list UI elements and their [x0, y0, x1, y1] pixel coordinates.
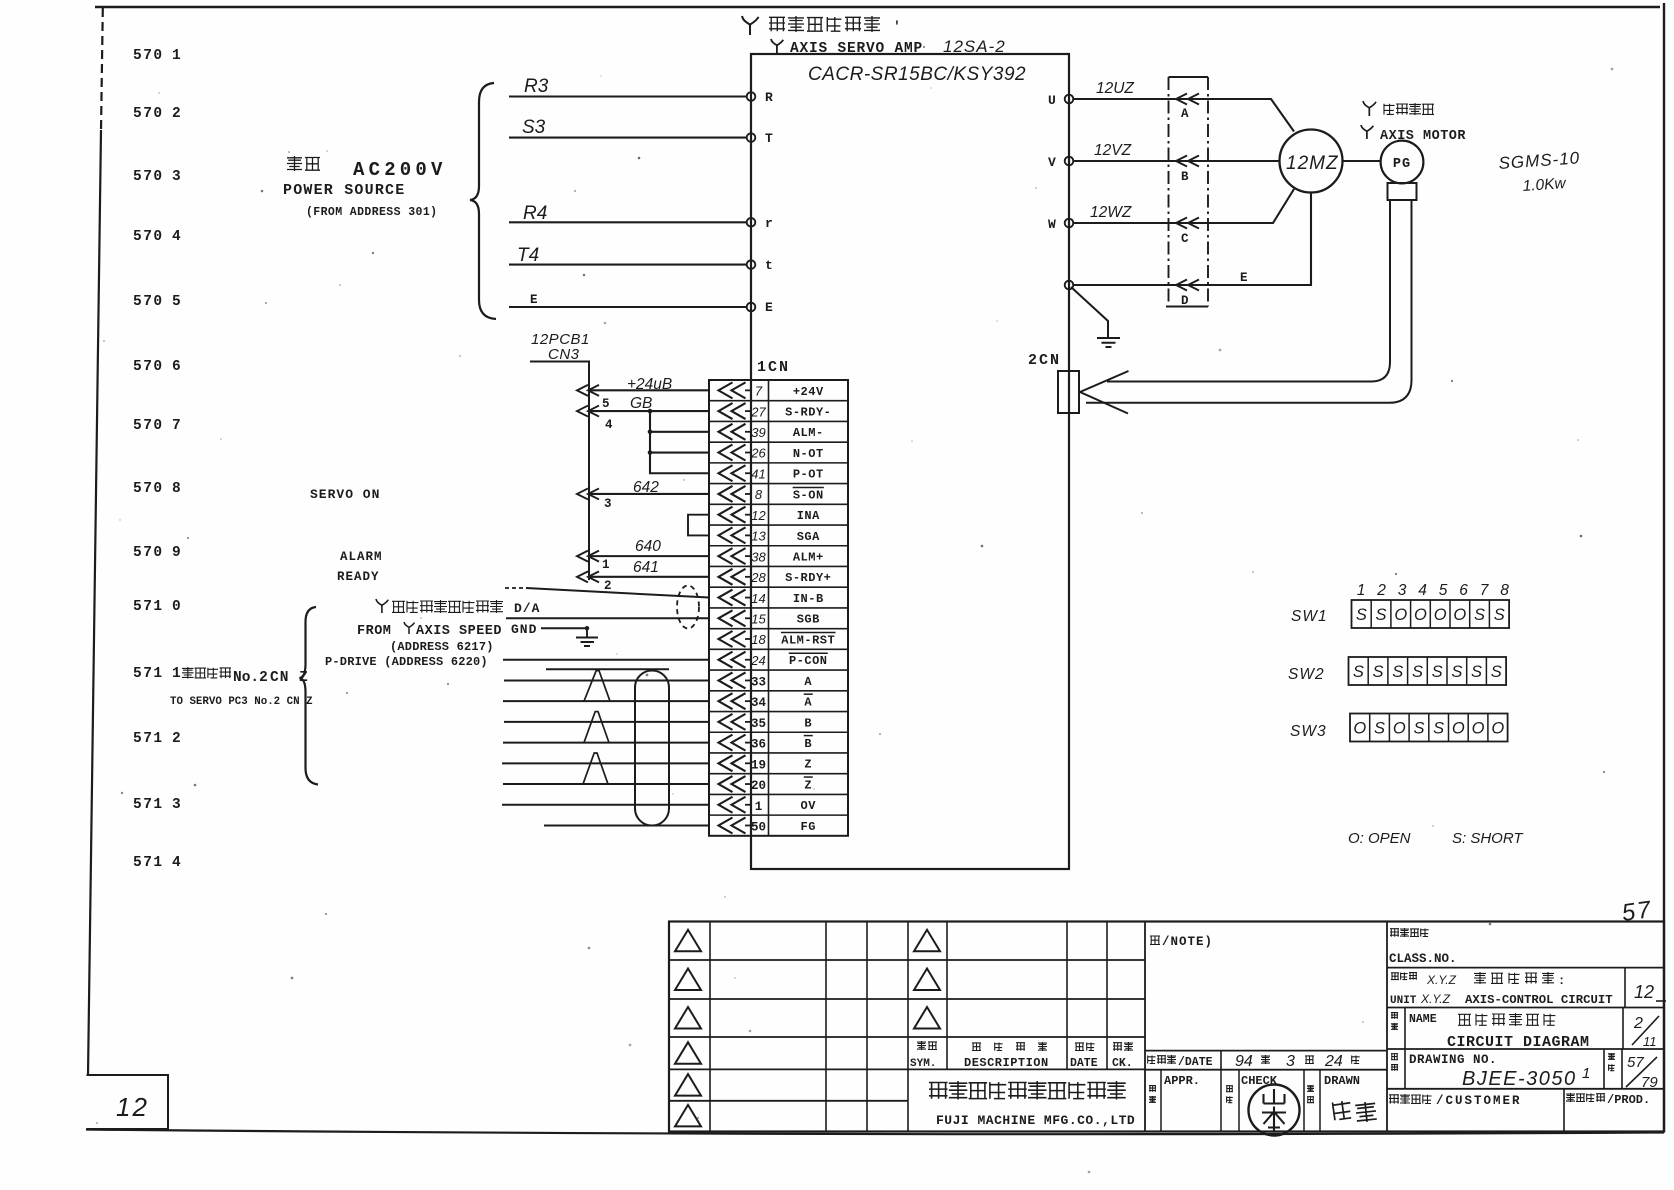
- 1CN pin 8 S-ON row: [719, 486, 824, 502]
- terminal U: [1065, 95, 1074, 104]
- svg-text:(ADDRESS 6217): (ADDRESS 6217): [390, 640, 494, 654]
- switch SW2: [1349, 657, 1507, 685]
- svg-text:4: 4: [605, 418, 613, 432]
- svg-text:IN-B: IN-B: [793, 592, 824, 606]
- 1CN pin 41 P-OT row: [719, 465, 824, 481]
- svg-text:570: 570: [133, 229, 164, 245]
- revision triangle row 4 left: [675, 1042, 701, 1064]
- terminal strip A B C D (dashed): [1168, 77, 1170, 307]
- svg-text:SGA: SGA: [797, 530, 820, 544]
- svg-text:FG: FG: [801, 820, 816, 834]
- svg-text:GND: GND: [511, 622, 537, 637]
- svg-text:642: 642: [633, 479, 659, 496]
- svg-text:SW2: SW2: [1288, 666, 1325, 683]
- shield tube encoder cable: [635, 671, 669, 826]
- svg-text:DESCRIPTION: DESCRIPTION: [964, 1056, 1049, 1070]
- svg-text:FROM: FROM: [357, 624, 391, 639]
- wire encoder to pin 20 (Z): [503, 783, 709, 785]
- svg-text:50: 50: [751, 820, 766, 834]
- svg-text:O: O: [1434, 606, 1447, 624]
- svg-text:AXIS MOTOR: AXIS MOTOR: [1380, 129, 1466, 144]
- svg-text:S: S: [1474, 606, 1485, 624]
- svg-text:CACR-SR15BC/KSY392: CACR-SR15BC/KSY392: [808, 64, 1026, 85]
- svg-text:O: O: [1394, 606, 1407, 624]
- svg-text:11: 11: [1643, 1034, 1657, 1049]
- svg-text:5: 5: [602, 397, 610, 411]
- brace power source group: [470, 83, 496, 319]
- svg-text:57: 57: [1627, 1054, 1644, 1071]
- svg-text:7: 7: [172, 418, 181, 434]
- svg-text:1: 1: [1357, 582, 1366, 599]
- PG cable lower line: [1086, 200, 1412, 403]
- date row: [1145, 1069, 1387, 1071]
- label APPR: [1149, 1085, 1156, 1091]
- svg-text:O: OPEN: O: OPEN: [1348, 830, 1411, 847]
- svg-text:12SA-2: 12SA-2: [943, 37, 1006, 56]
- svg-text:T: T: [765, 131, 773, 146]
- revision triangle row 2 right: [914, 969, 940, 991]
- svg-text:5: 5: [1439, 582, 1448, 599]
- wire T4 to terminal t: [509, 264, 747, 266]
- svg-text:B: B: [804, 737, 812, 751]
- svg-text:+24uB: +24uB: [627, 376, 672, 393]
- shield oval IN-B/SGB: [677, 586, 699, 629]
- PG cable arrow into 2CN: [1080, 371, 1129, 414]
- svg-text:S: S: [1491, 663, 1502, 681]
- SW1 header digits 1-8: [1357, 582, 1510, 599]
- svg-text:570: 570: [133, 545, 164, 561]
- svg-text:571: 571: [133, 731, 164, 747]
- twisted pair symbol Z/Z: [583, 753, 608, 784]
- svg-text:INA: INA: [797, 509, 820, 523]
- svg-text:570: 570: [133, 481, 164, 497]
- wire W to motor: [1073, 189, 1294, 223]
- svg-text:R3: R3: [524, 76, 549, 97]
- svg-text:AXIS SPEED: AXIS SPEED: [416, 624, 502, 639]
- svg-text:S3: S3: [522, 117, 546, 138]
- svg-text:ALARM: ALARM: [340, 550, 383, 564]
- terminal W: [1065, 219, 1074, 228]
- svg-text:S-ON: S-ON: [793, 488, 824, 502]
- 1CN pin 12 INA row: [719, 507, 821, 523]
- customer row: [1563, 1089, 1565, 1131]
- terminal r: [747, 218, 756, 227]
- svg-text:C: C: [1181, 232, 1189, 246]
- wire GB branch vertical: [649, 411, 651, 473]
- svg-text:12: 12: [1634, 982, 1654, 1002]
- svg-text:1: 1: [755, 800, 763, 814]
- wire E to terminal E: [509, 306, 747, 308]
- wire bus to 1CN row (pin 38): [577, 551, 709, 562]
- header SYM column: [917, 1041, 926, 1050]
- svg-text:S: S: [1376, 606, 1387, 624]
- 1CN pin 27 S-RDY- row: [719, 403, 832, 419]
- svg-text:24: 24: [1324, 1053, 1343, 1070]
- svg-text:3: 3: [1398, 582, 1407, 599]
- svg-text:79: 79: [1641, 1074, 1658, 1091]
- svg-text:1: 1: [172, 48, 181, 64]
- svg-text:DATE: DATE: [1070, 1057, 1098, 1070]
- page bottom border: [86, 1130, 1664, 1135]
- svg-text:1: 1: [1582, 1065, 1590, 1082]
- svg-text:2: 2: [172, 731, 181, 747]
- wire S3 to terminal T: [509, 137, 747, 139]
- svg-text:B: B: [1181, 170, 1189, 184]
- terminal D: [1176, 280, 1199, 309]
- svg-text:8: 8: [1500, 582, 1509, 599]
- svg-text:14: 14: [751, 591, 765, 606]
- svg-text:28: 28: [750, 570, 766, 585]
- 1CN pin 39 ALM- row: [719, 424, 824, 440]
- svg-text:NAME: NAME: [1409, 1013, 1437, 1026]
- svg-text:OV: OV: [801, 799, 817, 813]
- label Y AXIS SERVO AMP 12SA-2: [771, 39, 783, 53]
- svg-text:6: 6: [172, 359, 181, 375]
- wire GND stub: [541, 627, 587, 629]
- svg-text:1: 1: [172, 666, 181, 682]
- company name Fuji Machine Mfg (Japanese): [929, 1082, 948, 1099]
- svg-text:TO SERVO PC3 No.2 CN Z: TO SERVO PC3 No.2 CN Z: [170, 696, 313, 708]
- svg-text:PG: PG: [1393, 157, 1411, 172]
- svg-text:S: S: [1412, 663, 1423, 681]
- svg-text:A: A: [1181, 107, 1189, 121]
- header DATE column: [1075, 1043, 1084, 1051]
- wire bus to 1CN row (pin 28): [577, 571, 709, 582]
- wire bus to 1CN row (pin 27): [577, 406, 709, 417]
- wire IN-B from D/A: [505, 587, 527, 589]
- connector 1CN pin table: [709, 380, 848, 836]
- svg-text:4: 4: [1418, 582, 1427, 599]
- wire encoder to pin 50 (FG): [544, 824, 709, 826]
- wire P-CON from P-DRIVE: [503, 659, 709, 661]
- header CK column: [1113, 1042, 1122, 1050]
- svg-text:570: 570: [133, 106, 164, 122]
- svg-text:S: S: [1356, 606, 1367, 624]
- wire encoder to pin 35 (B): [504, 721, 709, 723]
- svg-text:S: S: [1494, 606, 1505, 624]
- wire bus to 1CN row (pin 8): [577, 488, 709, 499]
- svg-text:S: S: [1451, 663, 1462, 681]
- svg-text:O: O: [1353, 720, 1366, 738]
- svg-text:W: W: [1048, 217, 1056, 232]
- svg-text:26: 26: [750, 446, 766, 461]
- page top border: [95, 6, 1660, 9]
- svg-text:2: 2: [1376, 582, 1386, 599]
- svg-text:T4: T4: [517, 245, 539, 266]
- wire shield top: [546, 668, 669, 670]
- label servo board No.2 CNZ (Japanese): [182, 667, 194, 679]
- svg-text:7: 7: [1480, 582, 1490, 599]
- approval row dividers: [1161, 1070, 1320, 1131]
- svg-text:SW1: SW1: [1291, 608, 1328, 625]
- label NOTE: [1150, 936, 1160, 945]
- svg-text:570: 570: [133, 48, 164, 64]
- revision triangle row 3 left: [675, 1007, 701, 1029]
- svg-text:27: 27: [750, 404, 766, 419]
- svg-text:POWER SOURCE: POWER SOURCE: [283, 182, 405, 199]
- svg-text:E: E: [765, 300, 773, 315]
- svg-text:641: 641: [633, 559, 659, 576]
- svg-text:(FROM ADDRESS 301): (FROM ADDRESS 301): [306, 206, 437, 219]
- wire bus to 1CN row (pin 7): [577, 385, 709, 396]
- svg-text:571: 571: [133, 599, 164, 615]
- svg-text:AXIS SERVO AMP: AXIS SERVO AMP: [790, 41, 923, 57]
- terminal t: [747, 260, 756, 269]
- svg-text:UNIT: UNIT: [1390, 995, 1417, 1007]
- svg-text:E: E: [530, 293, 538, 307]
- label 電源 (power): [287, 156, 302, 171]
- svg-text:8: 8: [755, 487, 763, 502]
- drawing no row: [1387, 1088, 1664, 1090]
- svg-text:CN Z: CN Z: [270, 670, 309, 686]
- motor-PG shaft: [1343, 160, 1381, 162]
- svg-text:S: S: [1392, 663, 1403, 681]
- svg-text:571: 571: [133, 666, 164, 682]
- terminal B: [1176, 156, 1199, 185]
- 1CN pin 19 Z row: [719, 755, 813, 772]
- unit row: [1387, 1007, 1664, 1009]
- svg-text:BJEE-3050: BJEE-3050: [1462, 1068, 1577, 1090]
- svg-text:FUJI MACHINE MFG.CO.,LTD: FUJI MACHINE MFG.CO.,LTD: [936, 1113, 1135, 1128]
- svg-text:4: 4: [172, 229, 181, 245]
- svg-text:CLASS.NO.: CLASS.NO.: [1389, 952, 1457, 966]
- label Y axis servo amp (Japanese): [742, 16, 759, 35]
- svg-text:34: 34: [751, 696, 767, 710]
- wire encoder to pin 33 (A): [504, 679, 709, 681]
- svg-text:38: 38: [751, 549, 766, 564]
- svg-text:640: 640: [635, 538, 661, 555]
- terminal R: [747, 92, 756, 101]
- label Y axis speed output (Japanese): [376, 599, 388, 613]
- svg-text:P-DRIVE (ADDRESS 6220): P-DRIVE (ADDRESS 6220): [325, 655, 488, 669]
- svg-text:2: 2: [172, 106, 181, 122]
- jumper loop INA-SGA: [688, 515, 709, 536]
- svg-text:2: 2: [604, 579, 612, 593]
- svg-text:7: 7: [755, 384, 763, 399]
- 1CN pin 26 N-OT row: [719, 445, 824, 461]
- svg-text:18: 18: [751, 632, 766, 647]
- revision triangle row 6 left: [675, 1105, 701, 1127]
- svg-text:S-RDY-: S-RDY-: [785, 405, 831, 419]
- svg-text:S: S: [1432, 663, 1443, 681]
- 1CN pin 15 SGB row: [719, 610, 820, 626]
- motor M 12MZ: [1280, 130, 1343, 193]
- terminal C: [1176, 218, 1199, 247]
- 1CN pin 34 A row: [719, 693, 813, 710]
- page left border: [101, 8, 103, 130]
- svg-text:ALM-RST: ALM-RST: [781, 633, 835, 647]
- svg-text:CIRCUIT DIAGRAM: CIRCUIT DIAGRAM: [1447, 1034, 1590, 1051]
- svg-text:/CUSTOMER: /CUSTOMER: [1436, 1094, 1522, 1108]
- ground symbol frame: [1097, 338, 1120, 347]
- class no row: [1387, 967, 1664, 969]
- svg-text:R4: R4: [523, 203, 547, 224]
- svg-text:35: 35: [751, 717, 766, 731]
- switch SW1: [1352, 600, 1510, 628]
- ground symbol (shield): [576, 628, 598, 646]
- svg-text:6: 6: [1459, 582, 1468, 599]
- svg-text:/DATE: /DATE: [1178, 1056, 1213, 1069]
- twisted pair symbol A/A: [584, 671, 610, 702]
- header DESCRIPTION column: [972, 1043, 981, 1051]
- svg-text:AXIS-CONTROL CIRCUIT: AXIS-CONTROL CIRCUIT: [1465, 993, 1613, 1007]
- svg-text:41: 41: [751, 466, 765, 481]
- svg-text:r: r: [765, 216, 773, 231]
- svg-text:U: U: [1048, 93, 1056, 108]
- wire encoder to pin 19 (Z): [502, 762, 709, 764]
- svg-text:Z: Z: [804, 758, 812, 772]
- svg-text:': ': [893, 19, 901, 34]
- revision triangle row 2 left: [675, 969, 701, 991]
- svg-text:12UZ: 12UZ: [1096, 80, 1134, 97]
- svg-text:12VZ: 12VZ: [1094, 142, 1132, 159]
- svg-text:S: SHORT: S: SHORT: [1452, 830, 1524, 847]
- svg-text:ALM-: ALM-: [793, 426, 824, 440]
- wire branch to N-OT: [650, 451, 709, 453]
- svg-text:X.Y.Z: X.Y.Z: [1426, 973, 1457, 987]
- svg-text:E: E: [1240, 271, 1248, 285]
- svg-text:X.Y.Z: X.Y.Z: [1420, 992, 1451, 1006]
- svg-text:O: O: [1453, 606, 1466, 624]
- wire V to motor: [1073, 160, 1280, 162]
- revision triangle row 1 left: [675, 930, 701, 952]
- wire branch to P-OT: [650, 472, 709, 474]
- 1CN pin 13 SGA row: [719, 527, 821, 543]
- PG connector square: [1388, 183, 1417, 200]
- svg-text:D/A: D/A: [514, 601, 540, 616]
- svg-text:3: 3: [1286, 1053, 1295, 1070]
- svg-text:570: 570: [133, 418, 164, 434]
- terminal V: [1065, 157, 1074, 166]
- wire R4 to terminal r: [509, 221, 747, 223]
- PG cable upper line: [1107, 200, 1390, 382]
- name row CIRCUIT DIAGRAM: [1387, 1048, 1664, 1050]
- svg-text:No.2: No.2: [233, 670, 268, 686]
- connector 2CN: [1058, 371, 1079, 413]
- svg-text:15: 15: [751, 611, 766, 626]
- svg-text:8: 8: [172, 481, 181, 497]
- terminal E: [747, 303, 756, 312]
- svg-text:Z: Z: [804, 778, 812, 792]
- svg-text:13: 13: [751, 529, 766, 544]
- label Y axis motor (Japanese): [1363, 101, 1376, 116]
- svg-text:1: 1: [602, 558, 610, 572]
- svg-text:P-CON: P-CON: [789, 654, 828, 668]
- svg-text:S: S: [1433, 720, 1444, 738]
- 1CN pin 33 A row: [719, 672, 813, 689]
- svg-text:A: A: [804, 696, 812, 710]
- svg-text:O: O: [1472, 720, 1485, 738]
- svg-text:S: S: [1471, 663, 1482, 681]
- svg-text:O: O: [1452, 720, 1465, 738]
- svg-text:DRAWING NO.: DRAWING NO.: [1409, 1053, 1497, 1067]
- wire encoder to pin 34 (A): [503, 700, 709, 702]
- terminal E(frame): [1065, 281, 1074, 290]
- handwritten Esaka: [1332, 1100, 1352, 1120]
- svg-text:12: 12: [116, 1092, 149, 1122]
- svg-text:570: 570: [133, 359, 164, 375]
- label Y AXIS MOTOR: [1361, 125, 1373, 139]
- 1CN pin 1 OV row: [719, 797, 817, 814]
- svg-text:19: 19: [751, 758, 766, 772]
- svg-text:S: S: [1373, 663, 1384, 681]
- 1CN pin 7 +24V row: [719, 382, 824, 398]
- svg-text:3: 3: [172, 797, 181, 813]
- 1CN pin 24 P-CON row: [719, 652, 828, 668]
- svg-text:/PROD.: /PROD.: [1607, 1093, 1650, 1107]
- hanko stamp Yamamoto: [1249, 1085, 1300, 1136]
- svg-text:O: O: [1491, 720, 1504, 738]
- svg-text:SGMS-10: SGMS-10: [1498, 148, 1581, 173]
- wire frame ground stub: [1071, 287, 1108, 337]
- svg-text:9: 9: [172, 545, 181, 561]
- svg-text:20: 20: [751, 779, 766, 793]
- revision triangle row 5 left: [675, 1074, 701, 1096]
- terminal A: [1176, 94, 1199, 122]
- svg-text:24: 24: [750, 653, 765, 668]
- twisted pair symbol B/B: [584, 712, 609, 743]
- revision triangle row 3 right: [914, 1007, 940, 1029]
- svg-text::: :: [1558, 974, 1565, 988]
- svg-text:1.0Kw: 1.0Kw: [1522, 175, 1568, 195]
- svg-text:36: 36: [751, 738, 766, 752]
- svg-text:3: 3: [604, 497, 612, 511]
- svg-text:12MZ: 12MZ: [1286, 153, 1339, 174]
- revision triangle row 1 right: [914, 930, 940, 952]
- svg-text:570: 570: [133, 294, 164, 310]
- svg-text:CK.: CK.: [1112, 1057, 1133, 1070]
- svg-text:2: 2: [1633, 1015, 1643, 1032]
- svg-text:S: S: [1374, 720, 1385, 738]
- wire bus corner from 12PCB1: [530, 362, 589, 581]
- servo amp box U1 Y-axis servo amplifier: [751, 54, 1069, 869]
- svg-text:P-OT: P-OT: [793, 468, 824, 482]
- svg-text:0: 0: [172, 599, 181, 615]
- title block frame: [669, 922, 1664, 1132]
- wire SGB: [506, 617, 709, 619]
- svg-text:1CN: 1CN: [757, 359, 790, 376]
- encoder PG: [1381, 141, 1424, 184]
- 1CN pin 28 S-RDY+ row: [719, 569, 832, 585]
- svg-text:33: 33: [751, 675, 766, 689]
- svg-text:A: A: [804, 675, 812, 689]
- svg-text:CN3: CN3: [548, 346, 580, 363]
- svg-text:SGB: SGB: [797, 613, 820, 627]
- svg-text:4: 4: [172, 855, 181, 871]
- svg-text:5: 5: [172, 294, 181, 310]
- wire U to motor: [1073, 99, 1294, 132]
- 1CN pin 14 IN-B row: [719, 590, 824, 606]
- svg-text:DRAWN: DRAWN: [1324, 1074, 1360, 1088]
- label DRAWN: [1307, 1085, 1314, 1092]
- svg-text:N-OT: N-OT: [793, 447, 824, 461]
- svg-text:t: t: [765, 258, 773, 273]
- svg-text:SW3: SW3: [1290, 723, 1327, 740]
- terminal T: [747, 133, 756, 142]
- svg-text:12WZ: 12WZ: [1090, 204, 1132, 221]
- wire E to motor: [1073, 193, 1311, 285]
- wire encoder to pin 1 (OV): [502, 804, 709, 806]
- svg-text:S: S: [1353, 663, 1364, 681]
- svg-text:571: 571: [133, 855, 164, 871]
- svg-text:R: R: [765, 90, 773, 105]
- svg-text:SERVO ON: SERVO ON: [310, 487, 380, 502]
- svg-text:B: B: [804, 716, 812, 730]
- label CHECK: [1226, 1086, 1233, 1092]
- 1CN pin 20 Z row: [719, 776, 813, 793]
- wire R3 to terminal R: [509, 95, 747, 97]
- svg-text:/NOTE): /NOTE): [1162, 935, 1213, 949]
